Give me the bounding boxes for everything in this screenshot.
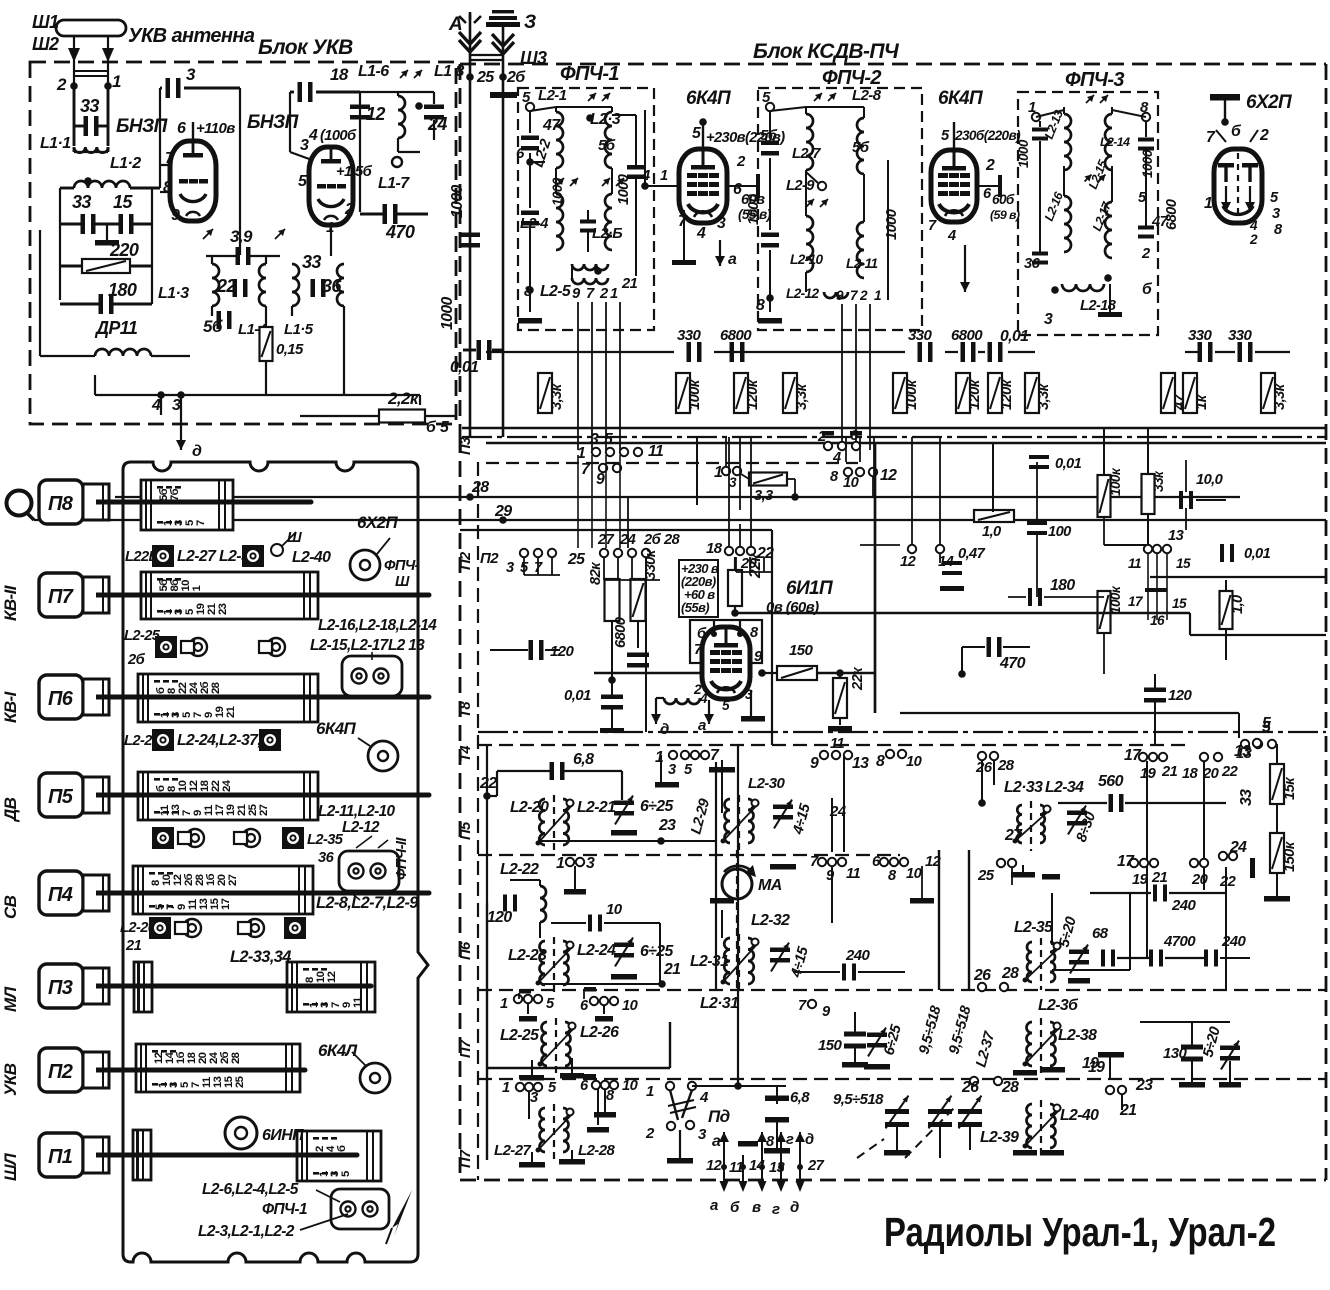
svg-text:27: 27 [227, 874, 239, 886]
svg-text:24: 24 [427, 114, 447, 134]
svg-text:5: 5 [722, 698, 730, 713]
svg-text:470: 470 [999, 655, 1026, 672]
svg-text:23: 23 [1135, 1077, 1153, 1094]
svg-text:5б: 5б [598, 137, 616, 154]
svg-text:L1·5: L1·5 [284, 321, 314, 338]
svg-text:28: 28 [1001, 1079, 1019, 1096]
svg-text:+110в: +110в [196, 120, 235, 137]
svg-text:1,0: 1,0 [1230, 594, 1246, 614]
svg-text:8: 8 [756, 297, 765, 314]
svg-text:5: 5 [1262, 719, 1271, 736]
svg-text:L2-11,L2-10: L2-11,L2-10 [318, 803, 396, 820]
svg-text:д: д [805, 1132, 814, 1148]
svg-text:28: 28 [210, 682, 222, 694]
svg-text:L2-28: L2-28 [578, 1142, 615, 1159]
svg-text:П6: П6 [458, 941, 474, 960]
svg-text:L2-4: L2-4 [520, 216, 548, 232]
svg-text:2: 2 [985, 157, 995, 174]
svg-text:6: 6 [516, 145, 525, 162]
svg-text:3,3к: 3,3к [1272, 382, 1288, 410]
svg-text:3: 3 [1272, 206, 1280, 222]
svg-text:2: 2 [1141, 246, 1151, 262]
svg-text:L2-16,L2-18,L2-14: L2-16,L2-18,L2-14 [318, 617, 437, 634]
svg-text:0,15: 0,15 [276, 341, 304, 358]
svg-text:П8: П8 [48, 493, 74, 515]
svg-text:21: 21 [1151, 870, 1168, 886]
svg-text:6800: 6800 [613, 616, 629, 648]
svg-text:а: а [728, 251, 737, 268]
svg-text:г: г [786, 1132, 794, 1148]
svg-text:21: 21 [1161, 764, 1178, 780]
svg-text:6,8: 6,8 [573, 751, 594, 768]
svg-text:27: 27 [1004, 827, 1023, 844]
svg-text:6: 6 [177, 120, 186, 137]
svg-text:6Х2П: 6Х2П [1246, 92, 1292, 113]
svg-text:3: 3 [186, 65, 196, 84]
svg-text:Ш1: Ш1 [32, 12, 59, 32]
svg-text:240: 240 [845, 947, 870, 964]
svg-text:6К4П: 6К4П [938, 88, 983, 109]
svg-text:ФПЧ-II: ФПЧ-II [394, 837, 410, 880]
svg-text:21: 21 [621, 276, 638, 292]
svg-text:L1-6: L1-6 [358, 63, 389, 80]
svg-text:МЛ: МЛ [1, 986, 20, 1012]
svg-text:2: 2 [56, 75, 67, 94]
svg-text:28: 28 [663, 532, 681, 548]
svg-text:L2-6,L2-4,L2-5: L2-6,L2-4,L2-5 [202, 1181, 299, 1198]
svg-text:L2 13: L2 13 [388, 637, 425, 654]
svg-text:3: 3 [668, 762, 676, 778]
svg-text:П2: П2 [480, 550, 499, 567]
svg-text:1: 1 [660, 168, 668, 184]
svg-text:3: 3 [698, 1126, 707, 1143]
svg-text:ШЛ: ШЛ [1, 1153, 20, 1181]
svg-text:2: 2 [1259, 127, 1269, 144]
svg-text:22: 22 [216, 276, 236, 296]
svg-text:а: а [698, 717, 706, 734]
svg-text:L2-33,34: L2-33,34 [230, 948, 291, 966]
svg-text:L1·3: L1·3 [158, 285, 189, 302]
svg-text:120: 120 [487, 909, 512, 926]
svg-text:5: 5 [440, 419, 449, 436]
svg-text:120к: 120к [967, 378, 983, 410]
svg-text:ФПЧ-1: ФПЧ-1 [560, 63, 619, 85]
svg-text:КВ-I: КВ-I [1, 690, 20, 723]
svg-text:2: 2 [859, 288, 868, 303]
svg-text:6К4П: 6К4П [686, 88, 731, 109]
svg-text:26: 26 [973, 967, 991, 984]
svg-text:Ш2: Ш2 [32, 34, 59, 54]
svg-text:L2-27: L2-27 [494, 1142, 531, 1159]
svg-text:L2-32: L2-32 [751, 912, 790, 929]
svg-text:33: 33 [302, 252, 321, 272]
svg-text:28: 28 [997, 757, 1015, 774]
svg-text:11: 11 [1128, 556, 1141, 571]
svg-text:120: 120 [550, 643, 574, 660]
svg-text:L2-12: L2-12 [786, 286, 820, 301]
svg-text:L2-8,L2-7,L2-9: L2-8,L2-7,L2-9 [316, 894, 419, 912]
svg-text:0,47: 0,47 [958, 546, 986, 562]
svg-text:1: 1 [714, 464, 722, 481]
svg-text:2: 2 [736, 153, 746, 170]
svg-text:19: 19 [1132, 872, 1149, 888]
svg-text:19: 19 [1082, 1055, 1099, 1072]
svg-text:5: 5 [604, 431, 613, 448]
svg-text:100: 100 [1048, 524, 1072, 540]
svg-text:4: 4 [699, 1089, 709, 1106]
svg-text:150к: 150к [1282, 840, 1298, 872]
svg-text:15к: 15к [1282, 776, 1298, 800]
svg-text:60б: 60б [992, 192, 1015, 207]
svg-text:L2-30: L2-30 [748, 775, 785, 792]
svg-text:10: 10 [622, 998, 639, 1014]
svg-text:150: 150 [789, 642, 813, 659]
svg-text:36: 36 [322, 276, 342, 296]
svg-text:3: 3 [506, 560, 514, 576]
svg-text:12: 12 [900, 554, 917, 570]
svg-text:1: 1 [326, 219, 334, 236]
svg-text:L2-23: L2-23 [508, 947, 547, 964]
svg-text:10: 10 [906, 866, 923, 882]
svg-text:3,3к: 3,3к [549, 382, 565, 410]
svg-text:13: 13 [769, 1160, 785, 1176]
svg-text:г: г [772, 1201, 780, 1218]
svg-text:180: 180 [1050, 577, 1075, 594]
svg-text:Блок УКВ: Блок УКВ [258, 36, 353, 59]
svg-text:27: 27 [807, 1158, 825, 1174]
svg-text:L2-40: L2-40 [292, 549, 331, 566]
svg-text:13: 13 [852, 755, 869, 772]
svg-text:6800: 6800 [1164, 198, 1180, 230]
svg-text:3: 3 [590, 431, 599, 448]
svg-text:3: 3 [586, 855, 595, 872]
svg-text:L2-21: L2-21 [577, 799, 615, 816]
svg-text:П3: П3 [458, 437, 474, 455]
svg-text:L2-25: L2-25 [500, 1027, 539, 1044]
svg-text:3: 3 [729, 475, 737, 490]
svg-text:120к: 120к [745, 378, 761, 410]
svg-text:П7: П7 [48, 586, 74, 608]
svg-text:L2-15,L2-17: L2-15,L2-17 [310, 637, 390, 654]
svg-text:1000: 1000 [1016, 139, 1031, 168]
svg-text:26: 26 [975, 759, 993, 776]
svg-text:1: 1 [556, 855, 564, 872]
svg-text:2,2к: 2,2к [387, 389, 420, 408]
svg-text:МА: МА [758, 877, 782, 894]
svg-text:21: 21 [225, 706, 237, 718]
svg-text:100к: 100к [1108, 585, 1123, 614]
svg-text:17: 17 [1128, 594, 1144, 609]
svg-text:1: 1 [502, 1080, 510, 1096]
svg-text:100к: 100к [1108, 467, 1123, 496]
svg-text:21: 21 [125, 938, 142, 954]
svg-text:120: 120 [1168, 687, 1192, 704]
svg-text:15: 15 [1172, 596, 1187, 611]
svg-text:4: 4 [947, 228, 956, 244]
svg-text:1,0: 1,0 [982, 524, 1002, 540]
svg-text:П7: П7 [458, 1039, 474, 1058]
svg-text:560: 560 [1098, 773, 1124, 790]
svg-text:22: 22 [1221, 764, 1239, 780]
svg-text:10: 10 [622, 1078, 639, 1094]
svg-text:11: 11 [830, 736, 844, 752]
svg-text:6К4П: 6К4П [316, 719, 357, 738]
svg-text:4: 4 [1249, 218, 1258, 233]
svg-text:3: 3 [717, 215, 726, 232]
svg-text:2: 2 [1249, 232, 1258, 247]
svg-text:0,01: 0,01 [564, 687, 591, 704]
svg-text:13: 13 [1168, 528, 1184, 544]
svg-text:L2-40: L2-40 [1060, 1107, 1099, 1124]
svg-text:33к: 33к [1151, 470, 1166, 492]
svg-text:25: 25 [977, 867, 995, 884]
svg-text:100к: 100к [904, 378, 920, 410]
svg-text:L2-12: L2-12 [342, 819, 380, 836]
svg-text:П7: П7 [458, 1149, 474, 1168]
svg-text:П2: П2 [458, 551, 474, 570]
svg-text:11: 11 [846, 866, 860, 882]
svg-text:82к: 82к [588, 561, 604, 585]
svg-text:120к: 120к [999, 378, 1015, 410]
svg-text:6ИНП: 6ИНП [262, 1127, 304, 1144]
svg-text:3,3к: 3,3к [1036, 382, 1052, 410]
svg-text:68: 68 [1092, 925, 1109, 942]
svg-text:4: 4 [151, 397, 161, 414]
svg-text:22к: 22к [850, 666, 866, 691]
svg-text:10: 10 [906, 754, 923, 770]
svg-text:1: 1 [646, 1083, 654, 1100]
svg-text:6И1П: 6И1П [786, 578, 833, 599]
svg-text:Блок КСДВ-ПЧ: Блок КСДВ-ПЧ [753, 40, 900, 63]
svg-text:28: 28 [1001, 965, 1019, 982]
svg-text:УКВ антенна: УКВ антенна [128, 25, 255, 47]
svg-text:1: 1 [112, 72, 121, 91]
svg-text:L2-3б: L2-3б [1038, 997, 1079, 1014]
svg-text:1000: 1000 [439, 296, 456, 330]
svg-text:25: 25 [234, 1076, 246, 1088]
svg-text:L1 8: L1 8 [434, 63, 464, 80]
svg-text:4700: 4700 [1163, 933, 1196, 950]
svg-text:4: 4 [308, 127, 318, 144]
svg-text:L2-9: L2-9 [786, 178, 815, 194]
svg-text:ДР11: ДР11 [94, 318, 138, 338]
svg-text:L1-7: L1-7 [378, 175, 410, 192]
svg-text:ДВ: ДВ [1, 797, 20, 823]
svg-text:L2-7: L2-7 [792, 146, 821, 162]
svg-text:5: 5 [340, 1171, 352, 1177]
svg-text:L2-39: L2-39 [980, 1129, 1019, 1146]
svg-text:10,0: 10,0 [1196, 472, 1224, 488]
svg-text:25: 25 [476, 69, 495, 86]
svg-text:П3: П3 [48, 977, 73, 999]
svg-text:д: д [660, 721, 669, 738]
svg-text:27: 27 [258, 804, 270, 816]
svg-text:23: 23 [658, 817, 676, 834]
svg-text:L1·1: L1·1 [40, 135, 71, 152]
svg-text:6800: 6800 [951, 327, 983, 344]
svg-text:СВ: СВ [1, 895, 20, 919]
svg-text:ФПЧ-: ФПЧ- [384, 558, 420, 574]
svg-text:5: 5 [692, 125, 701, 142]
svg-text:0,01: 0,01 [450, 359, 478, 376]
svg-text:L2·33: L2·33 [1004, 779, 1043, 796]
svg-text:15: 15 [1176, 556, 1191, 571]
svg-text:13: 13 [1234, 743, 1251, 760]
svg-text:18: 18 [1182, 766, 1199, 782]
svg-text:2б: 2б [506, 69, 526, 86]
svg-text:З: З [524, 12, 536, 33]
svg-text:220: 220 [109, 240, 139, 260]
svg-text:д: д [192, 443, 202, 460]
svg-text:0,01: 0,01 [1244, 546, 1271, 562]
svg-text:12: 12 [326, 971, 338, 983]
svg-text:33: 33 [80, 96, 99, 116]
svg-text:Пд: Пд [708, 1107, 730, 1126]
svg-text:9: 9 [836, 288, 844, 303]
svg-text:L2-24: L2-24 [577, 942, 616, 959]
svg-text:L2-5: L2-5 [540, 283, 571, 300]
svg-text:ФПЧ-1: ФПЧ-1 [262, 1201, 307, 1218]
svg-text:1000: 1000 [550, 177, 565, 206]
svg-text:19: 19 [1140, 766, 1157, 782]
svg-text:100к: 100к [687, 378, 703, 410]
svg-text:9,5÷518: 9,5÷518 [833, 1091, 884, 1108]
svg-text:33: 33 [72, 192, 91, 212]
svg-text:L2-18: L2-18 [1080, 298, 1117, 314]
svg-text:L2-1: L2-1 [538, 87, 567, 104]
svg-text:11: 11 [352, 997, 364, 1008]
svg-text:3: 3 [172, 397, 181, 414]
svg-text:330: 330 [1188, 327, 1212, 344]
svg-text:П5: П5 [458, 821, 474, 840]
svg-text:17: 17 [220, 898, 232, 910]
svg-text:П2: П2 [48, 1061, 73, 1083]
svg-text:6К4Л: 6К4Л [318, 1041, 358, 1060]
svg-text:1000: 1000 [746, 193, 762, 225]
svg-text:3: 3 [300, 137, 309, 154]
svg-text:в: в [752, 1199, 761, 1216]
svg-text:10: 10 [843, 475, 860, 491]
svg-text:L1·2: L1·2 [110, 155, 141, 172]
svg-text:6,8: 6,8 [790, 1089, 810, 1106]
svg-text:20: 20 [1191, 872, 1209, 888]
svg-text:д: д [790, 1199, 799, 1216]
svg-text:240: 240 [1221, 933, 1246, 950]
svg-text:б: б [336, 1145, 348, 1152]
svg-text:Ш: Ш [395, 574, 410, 590]
svg-text:L2-35: L2-35 [307, 832, 344, 848]
svg-text:Т8: Т8 [458, 701, 474, 718]
svg-text:L2-11: L2-11 [846, 256, 878, 271]
svg-text:П6: П6 [48, 688, 74, 710]
svg-text:L2-8: L2-8 [852, 87, 882, 104]
svg-text:21: 21 [663, 961, 680, 978]
svg-text:Ш3: Ш3 [520, 48, 547, 68]
svg-text:(59 в): (59 в) [990, 208, 1020, 222]
svg-text:23: 23 [217, 603, 229, 615]
svg-text:2: 2 [645, 1125, 655, 1142]
svg-text:10: 10 [606, 901, 623, 918]
svg-text:1: 1 [610, 286, 618, 302]
svg-text:(100б: (100б [320, 128, 357, 144]
svg-text:7: 7 [195, 520, 207, 526]
svg-text:8: 8 [163, 179, 172, 196]
svg-text:L2-10: L2-10 [790, 252, 824, 267]
svg-text:330: 330 [677, 327, 701, 344]
svg-text:L2-38: L2-38 [1058, 1027, 1097, 1044]
svg-text:Радиолы Урал-1, Урал-2: Радиолы Урал-1, Урал-2 [884, 1209, 1276, 1255]
svg-text:28: 28 [471, 479, 489, 496]
svg-text:33: 33 [1238, 789, 1255, 806]
svg-text:6÷25: 6÷25 [640, 943, 673, 960]
svg-text:26: 26 [961, 1079, 979, 1096]
svg-text:18: 18 [706, 540, 723, 557]
svg-text:2: 2 [817, 429, 827, 445]
svg-text:9: 9 [171, 207, 180, 224]
svg-text:1: 1 [500, 996, 508, 1012]
svg-text:1000: 1000 [449, 184, 466, 218]
svg-text:2б: 2б [643, 532, 662, 548]
svg-text:15: 15 [113, 192, 133, 212]
svg-text:12: 12 [880, 467, 897, 484]
svg-text:1000: 1000 [884, 208, 900, 240]
svg-text:2б: 2б [127, 652, 146, 668]
svg-text:УКВ: УКВ [1, 1063, 20, 1096]
svg-text:22: 22 [1219, 874, 1237, 890]
svg-text:11: 11 [729, 1160, 743, 1176]
svg-text:9: 9 [596, 471, 605, 488]
svg-text:3,3к: 3,3к [794, 382, 810, 410]
svg-text:1000: 1000 [1140, 149, 1155, 178]
svg-text:9: 9 [810, 755, 819, 772]
svg-text:4: 4 [696, 225, 706, 242]
svg-text:150: 150 [818, 1037, 842, 1054]
svg-text:1к: 1к [1194, 393, 1210, 410]
svg-text:330: 330 [1228, 327, 1252, 344]
svg-text:L2·31: L2·31 [700, 995, 738, 1012]
svg-text:П5: П5 [48, 786, 74, 808]
svg-text:L2-35: L2-35 [1014, 919, 1053, 936]
svg-text:18: 18 [330, 65, 349, 84]
svg-text:L2-22: L2-22 [500, 861, 539, 878]
svg-text:1: 1 [1204, 195, 1212, 212]
svg-text:330: 330 [908, 327, 932, 344]
svg-text:П1: П1 [48, 1146, 73, 1168]
svg-text:+1,5б: +1,5б [336, 164, 373, 180]
svg-text:L2-31: L2-31 [690, 953, 728, 970]
svg-text:Т4: Т4 [458, 746, 474, 762]
svg-text:7б: 7б [169, 488, 181, 501]
svg-text:36: 36 [1024, 256, 1041, 272]
svg-text:П4: П4 [48, 884, 73, 906]
svg-text:3,9: 3,9 [230, 227, 253, 246]
svg-text:230б(220в): 230б(220в) [954, 128, 1021, 143]
svg-text:1: 1 [874, 288, 881, 303]
svg-text:2: 2 [599, 286, 609, 302]
svg-text:L2·3: L2·3 [590, 111, 621, 128]
svg-text:6÷25: 6÷25 [640, 798, 673, 815]
svg-text:6Х2П: 6Х2П [357, 513, 398, 532]
svg-text:470: 470 [385, 222, 415, 242]
svg-text:8: 8 [876, 753, 885, 770]
svg-text:3: 3 [530, 1090, 538, 1106]
svg-text:1: 1 [191, 586, 203, 592]
svg-text:25: 25 [567, 551, 585, 568]
svg-text:а: а [710, 1197, 718, 1214]
svg-text:L2-34: L2-34 [1045, 779, 1084, 796]
svg-text:3: 3 [1044, 311, 1053, 328]
svg-text:L2-26: L2-26 [580, 1024, 619, 1041]
